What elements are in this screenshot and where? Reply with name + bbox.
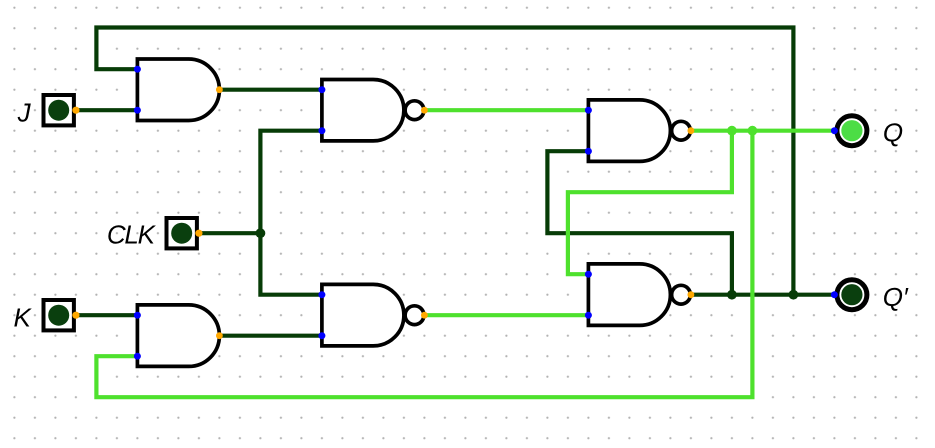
wire NAND-K output to latch-bottom input bbox=[424, 313, 588, 317]
AND gate U1 (J side) bbox=[134, 59, 223, 121]
wire Qn feedback: junction up, across top, down to AND-J top input bbox=[96, 28, 793, 295]
wire J-button to AND-J input bbox=[76, 108, 137, 112]
svg-text:CLK: CLK bbox=[107, 220, 157, 250]
wire Q output row to Q pin bbox=[691, 129, 835, 133]
input button J bbox=[44, 95, 80, 125]
wire Qn cross-couple to latch-top bottom input bbox=[547, 151, 732, 295]
svg-text:Q′: Q′ bbox=[883, 282, 909, 312]
NAND gate U5 (latch top, Q) bbox=[585, 100, 694, 162]
svg-text:K: K bbox=[13, 302, 32, 332]
wire AND-K output to NAND-K bottom input bbox=[219, 334, 322, 338]
wire AND-J output to NAND-J top input bbox=[219, 88, 322, 92]
junction Q node at bottom feedback bbox=[748, 126, 758, 136]
wire Qn output row to Q-prime pin bbox=[691, 293, 835, 297]
wire CLK branch down to NAND-K top input bbox=[260, 233, 322, 295]
wire NAND-J output to latch-top input bbox=[424, 108, 588, 112]
junction Q node at cross-couple bbox=[727, 126, 737, 136]
junction Qn node at top feedback bbox=[789, 290, 799, 300]
junction CLK node bbox=[256, 228, 266, 238]
svg-text:J: J bbox=[17, 97, 32, 127]
input button K bbox=[44, 300, 80, 330]
wire CLK button to junction bbox=[199, 231, 261, 235]
wire Q feedback down, across bottom, up to AND-K bottom input bbox=[96, 131, 752, 398]
input button CLK bbox=[167, 218, 203, 248]
NAND gate U4 (K pulse) bbox=[318, 284, 427, 346]
junction Qn node at cross-couple bbox=[727, 290, 737, 300]
output pin Q-prime (off) bbox=[831, 280, 867, 310]
wire Q cross-couple to latch-bottom top input bbox=[568, 131, 732, 275]
output pin Q (lit) bbox=[831, 116, 867, 146]
AND gate U2 (K side) bbox=[134, 305, 223, 367]
NAND gate U6 (latch bottom, Qn) bbox=[585, 264, 694, 326]
wire K-button to AND-K input bbox=[76, 313, 137, 317]
svg-text:Q: Q bbox=[883, 118, 903, 148]
wire CLK branch up to NAND-J bottom input bbox=[260, 131, 322, 234]
NAND gate U3 (J pulse) bbox=[318, 79, 427, 140]
